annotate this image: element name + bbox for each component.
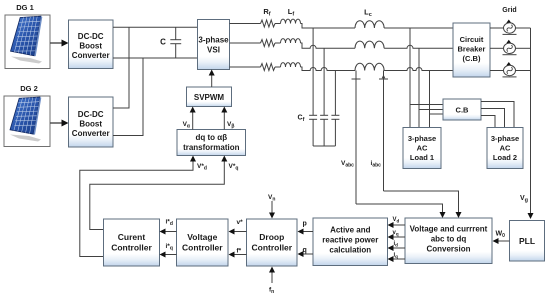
svg-text:Vn: Vn — [268, 194, 275, 203]
svg-text:DC-DC: DC-DC — [78, 110, 104, 119]
block circuit breaker CB1 — [453, 23, 490, 77]
wire i*d arrow voltage to current — [162, 231, 177, 233]
wire p arrow calc to droop — [300, 231, 313, 233]
wire step down phase B with hop at Cf tap A — [301, 43, 356, 48]
svg-text:Rf: Rf — [263, 7, 270, 18]
svg-text:V*q: V*q — [229, 163, 239, 172]
wire tap B to CB2 — [419, 109, 443, 111]
wire W0 PLL to conversion — [495, 240, 510, 242]
block 3-phase AC Load 1 — [403, 128, 441, 169]
svg-text:Vd: Vd — [393, 217, 400, 224]
sensor tap iabc vertical — [379, 71, 388, 192]
svg-text:fn: fn — [269, 287, 274, 296]
wire phase A from VSI — [230, 23, 261, 25]
svg-text:Cf: Cf — [298, 115, 305, 124]
wire Cf common bar — [313, 145, 335, 147]
inductor Lc phase C — [355, 63, 384, 70]
svg-text:Circuit: Circuit — [460, 35, 484, 44]
svg-text:Vβ: Vβ — [227, 121, 234, 130]
svg-text:Conversion: Conversion — [426, 245, 470, 254]
wire — [275, 66, 281, 68]
wire tap C to CB2 — [430, 113, 444, 115]
wire id conversion to calc — [390, 247, 405, 249]
wire V*q feedback into transformation — [90, 158, 225, 230]
inductor Lc phase B — [355, 41, 384, 48]
svg-text:C: C — [160, 38, 166, 47]
wire phase A to breaker with junction at load tap — [384, 27, 453, 29]
AC grid source A — [503, 20, 517, 35]
svg-text:Load 2: Load 2 — [493, 153, 517, 162]
arrowhead Vabc into conversion — [440, 212, 446, 218]
wire iabc route to conversion — [384, 191, 459, 216]
solar panel DG1 — [5, 15, 50, 69]
svg-text:Controller: Controller — [182, 243, 223, 253]
block Droop Controller — [247, 219, 298, 266]
svg-text:3-phase: 3-phase — [491, 134, 519, 143]
block dq to alphabeta transformation — [177, 130, 246, 156]
wire grid source C to bus — [516, 70, 531, 72]
wire DC bus positive rail — [113, 26, 198, 28]
resistor Rf phase A — [261, 20, 276, 27]
svg-text:Boost: Boost — [79, 120, 102, 129]
svg-text:Voltage and currrent: Voltage and currrent — [410, 225, 488, 234]
arrowhead iabc into conversion — [456, 212, 462, 218]
block 3-phase AC Load 2 — [487, 128, 523, 169]
svg-text:Vα: Vα — [183, 121, 191, 130]
wire boost2 bottom output riser — [113, 58, 143, 136]
svg-text:AC: AC — [417, 144, 428, 153]
svg-text:AC: AC — [500, 144, 511, 153]
AC grid source C — [503, 62, 517, 77]
inductor Lf phase B — [281, 39, 301, 43]
svg-text:(C.B): (C.B) — [463, 54, 481, 63]
svg-text:Grid: Grid — [502, 7, 516, 14]
svg-text:i*q: i*q — [166, 243, 173, 252]
wire phase B from VSI — [230, 42, 261, 44]
svg-text:iabc: iabc — [371, 160, 382, 169]
wire DG2 to boost arrow — [50, 122, 62, 124]
inductor Lf phase A — [281, 19, 301, 23]
wire iq conversion to calc — [390, 258, 405, 260]
svg-text:VSI: VSI — [207, 46, 220, 55]
wire CB2 out A to Load2 — [481, 102, 514, 128]
svg-text:W0: W0 — [496, 231, 506, 240]
svg-text:Droop: Droop — [259, 232, 284, 242]
wire Valpha to SVPWM — [192, 109, 194, 130]
svg-text:SVPWM: SVPWM — [194, 93, 225, 102]
wire step down phase A — [301, 24, 356, 29]
wire fn into droop bottom — [271, 269, 273, 283]
inductor Lc phase A — [355, 21, 384, 28]
svg-text:dq to αβ: dq to αβ — [196, 133, 228, 142]
block PLL — [510, 221, 545, 262]
arrowhead V*q — [221, 156, 227, 162]
sensor tap Vabc vertical — [352, 71, 361, 205]
svg-text:Converter: Converter — [72, 51, 110, 60]
block 3-phase VSI U1 — [198, 20, 230, 70]
block DC-DC boost converter 1 — [69, 20, 114, 69]
wire breaker to grid source C — [490, 70, 504, 72]
wire — [275, 42, 281, 44]
svg-text:DC-DC: DC-DC — [78, 32, 104, 41]
arrowhead Vg into PLL — [528, 213, 534, 219]
svg-text:Controller: Controller — [251, 243, 292, 253]
wire Vabc route to conversion — [356, 204, 443, 216]
svg-text:Active and: Active and — [330, 226, 371, 235]
svg-text:reactive power: reactive power — [322, 236, 378, 245]
svg-text:3-phase: 3-phase — [198, 36, 229, 45]
svg-text:transformation: transformation — [183, 143, 240, 152]
wire Vq conversion to calc — [390, 236, 405, 238]
block Voltage Controller — [177, 219, 229, 266]
wire breaker to grid source B — [490, 47, 504, 49]
svg-text:Vg: Vg — [520, 195, 528, 204]
svg-text:vq: vq — [393, 230, 399, 237]
arrowhead into VSI — [209, 70, 215, 76]
block SVPWM — [187, 87, 232, 107]
svg-text:Controller: Controller — [111, 243, 152, 253]
wire load tap phase B down to Load1 — [418, 48, 420, 127]
svg-text:calculation: calculation — [329, 246, 371, 255]
wire CB2 out B to Load2 — [481, 109, 505, 128]
block abc to dq conversion — [405, 218, 492, 264]
block DC-DC boost converter 2 — [69, 97, 114, 147]
wire phase B to breaker with hop at load tap A — [384, 45, 453, 48]
wire load tap phase A down to Load1 — [409, 28, 411, 128]
wire Vn into droop top — [271, 201, 273, 216]
wire boost2 top output riser — [113, 27, 129, 108]
capacitor C — [170, 27, 181, 58]
block power calculation — [313, 218, 388, 266]
wire — [275, 23, 281, 25]
resistor Rf phase B — [261, 40, 276, 47]
wire V*d feedback into transformation — [80, 158, 193, 257]
capacitor Cf phase A tap — [309, 28, 317, 146]
svg-text:DG 2: DG 2 — [20, 84, 38, 93]
wire phase C from VSI — [230, 66, 261, 68]
svg-text:Load 1: Load 1 — [410, 153, 434, 162]
wire grid source B to bus — [516, 47, 531, 49]
wire grid source A to bus — [516, 27, 531, 29]
svg-text:Lc: Lc — [364, 8, 372, 19]
svg-text:abc to dq: abc to dq — [431, 235, 467, 244]
wire CB2 out C to Load2 — [481, 116, 495, 128]
svg-text:iq: iq — [394, 253, 399, 260]
svg-text:V*d: V*d — [197, 163, 207, 172]
svg-text:i*d: i*d — [166, 219, 173, 228]
wire q arrow calc to droop — [300, 253, 313, 255]
block CB2 — [443, 99, 481, 120]
wire grid bus Vg down to PLL — [530, 28, 532, 216]
svg-text:PLL: PLL — [519, 236, 535, 246]
wire step down phase C with hops at Cf taps A,B — [301, 67, 356, 71]
svg-text:Voltage: Voltage — [187, 232, 217, 242]
svg-text:DG 1: DG 1 — [16, 3, 34, 12]
svg-text:Converter: Converter — [72, 129, 110, 138]
wire Vd conversion to calc — [390, 224, 405, 226]
wire Vbeta to SVPWM — [223, 109, 225, 130]
svg-text:Boost: Boost — [79, 42, 102, 51]
svg-text:Vabc: Vabc — [341, 160, 354, 169]
svg-text:Lf: Lf — [288, 7, 295, 18]
solar panel DG2 — [4, 96, 50, 147]
wire i*q arrow voltage to current — [162, 254, 177, 256]
wire phase C to breaker with hops at load taps A,B — [384, 68, 453, 71]
wire DG1 to boost arrow — [50, 42, 62, 44]
wire f* arrow droop to voltage — [231, 254, 247, 256]
wire DC bus negative rail — [113, 57, 198, 59]
svg-text:Curent: Curent — [118, 232, 146, 242]
arrowhead V*d — [190, 156, 196, 162]
svg-text:Breaker: Breaker — [458, 45, 486, 54]
svg-text:3-phase: 3-phase — [408, 134, 436, 143]
block Current Controller — [104, 219, 160, 266]
svg-text:C.B: C.B — [456, 106, 470, 115]
svg-text:id: id — [394, 241, 399, 248]
arrowhead Valpha — [190, 107, 196, 113]
wire tap A to CB2 — [410, 104, 443, 106]
resistor Rf phase C — [261, 64, 276, 71]
wire load tap phase C down to Load1 — [429, 71, 431, 128]
capacitor Cf phase B tap — [320, 48, 328, 146]
wire SVPWM to VSI — [211, 72, 213, 87]
svg-text:q: q — [303, 247, 307, 254]
wire v* arrow droop to voltage — [231, 231, 247, 233]
capacitor Cf phase C tap — [331, 71, 339, 147]
svg-text:f*: f* — [237, 248, 242, 255]
wire breaker to grid source A — [490, 27, 504, 29]
arrowhead Vbeta — [221, 107, 227, 113]
svg-text:v*: v* — [237, 219, 244, 226]
inductor Lf phase C — [281, 63, 301, 67]
svg-text:p: p — [303, 221, 307, 228]
AC grid source B — [503, 40, 517, 55]
